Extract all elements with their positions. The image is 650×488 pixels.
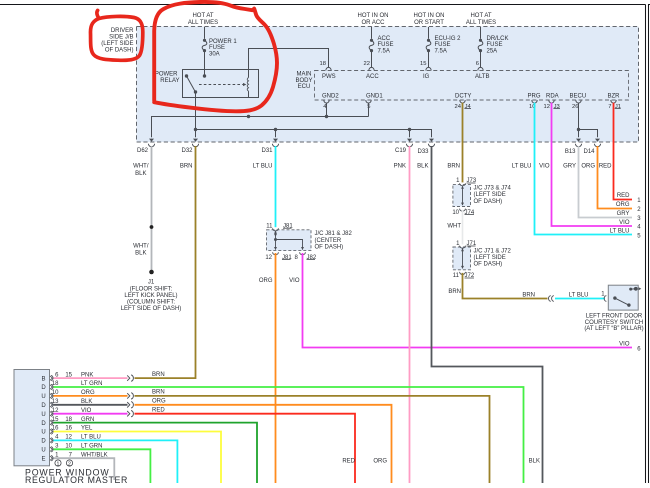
svg-text:PNK: PNK — [394, 164, 406, 170]
wire BLK D33 down and across — [432, 146, 543, 483]
svg-text:6: 6 — [476, 61, 479, 67]
wire: relay output down to bus — [195, 92, 197, 137]
svg-text:ACC: ACC — [366, 74, 379, 80]
svg-text:GND2: GND2 — [322, 94, 339, 100]
connector D32 — [193, 139, 198, 142]
svg-text:BODY: BODY — [295, 78, 312, 84]
svg-text:VIO: VIO — [619, 220, 630, 226]
svg-text:BLK: BLK — [529, 459, 540, 465]
svg-text:C19: C19 — [395, 148, 407, 154]
inline connector )) — [127, 402, 133, 408]
svg-text:OF DASH): OF DASH) — [315, 244, 344, 250]
svg-text:(CENTER: (CENTER — [315, 238, 342, 244]
wire BLK master row4 to inline connector — [54, 404, 128, 406]
svg-text:15: 15 — [420, 61, 426, 67]
fuse ECU-IG 2 7.5A — [427, 39, 430, 42]
wire BRN J72 to door connector — [463, 273, 548, 299]
svg-text:(LEFT SIDE: (LEFT SIDE — [474, 255, 506, 261]
svg-text:E: E — [41, 456, 45, 462]
fuse ACC 7.5A — [370, 39, 373, 42]
wire: feed to ECU-IG 2 fuse — [428, 27, 430, 39]
wire WHT/BLK master row10 — [54, 458, 115, 480]
wire LT BLU master row8 — [54, 440, 178, 483]
svg-text:U: U — [41, 448, 45, 454]
junction connector J73/J74 box — [453, 185, 471, 207]
wire LT BLU to courtesy switch pin 1 — [555, 298, 605, 300]
svg-text:OF DASH): OF DASH) — [105, 47, 134, 53]
svg-text:LT BLU: LT BLU — [610, 229, 630, 235]
svg-text:DRIVER: DRIVER — [111, 28, 134, 34]
junction block (driver side J/B) dashed outline with blue fill — [137, 27, 639, 143]
inline connector (( — [549, 296, 554, 302]
svg-text:IG: IG — [423, 74, 430, 80]
J81 internal links — [273, 228, 279, 231]
inline connector )) — [127, 393, 133, 399]
svg-text:VIO: VIO — [619, 341, 630, 347]
wire RED BZR to edge pin 1 — [614, 103, 633, 200]
svg-text:ACC: ACC — [378, 36, 391, 42]
svg-text:LT BLU: LT BLU — [569, 292, 589, 298]
junction connector J81/J82 box — [267, 230, 312, 251]
annotation: small red circle around DRIVER SIDE J/B — [90, 10, 142, 60]
svg-text:D: D — [41, 439, 46, 445]
svg-text:(LEFT SIDE: (LEFT SIDE — [101, 41, 133, 47]
wire LT GRN master row9 — [54, 449, 151, 483]
fuse DR/LCK 25A — [479, 39, 482, 42]
svg-text:BRN: BRN — [180, 164, 193, 170]
ECU pin 4 GND2 — [324, 100, 329, 103]
svg-text:D62: D62 — [137, 148, 149, 154]
wire BRN D32 to master switch — [135, 146, 196, 378]
svg-text:7.5A: 7.5A — [435, 49, 447, 55]
switch S1 LEFT FRONT DOOR COURTESY SWITCH box — [608, 285, 638, 310]
svg-text:OR ACC: OR ACC — [361, 20, 385, 26]
svg-text:HOT IN ON: HOT IN ON — [414, 13, 445, 19]
svg-text:ORG: ORG — [616, 202, 630, 208]
relay actuation dashed link — [199, 84, 243, 86]
svg-text:11: 11 — [453, 273, 460, 279]
svg-text:PWS: PWS — [322, 74, 336, 80]
svg-text:BRN: BRN — [152, 390, 165, 396]
svg-text:22: 22 — [364, 61, 370, 67]
svg-text:WHT/: WHT/ — [133, 243, 149, 249]
svg-text:FUSE: FUSE — [435, 42, 451, 48]
ECU U1 MAIN BODY ECU dashed box — [315, 71, 629, 101]
circled note 2 — [66, 460, 72, 466]
svg-text:(FLOOR SHIFT:: (FLOOR SHIFT: — [130, 286, 173, 292]
wire GRY B13 to edge pin 3 — [579, 146, 633, 218]
svg-text:ORG: ORG — [581, 164, 595, 170]
svg-text:FUSE: FUSE — [378, 42, 394, 48]
svg-text:1: 1 — [57, 461, 60, 467]
svg-text:WHT/: WHT/ — [133, 164, 149, 170]
ECU pin 7 J1 BZR — [611, 100, 616, 103]
svg-text:12: 12 — [265, 255, 272, 261]
svg-text:RED: RED — [617, 193, 630, 199]
svg-text:D31: D31 — [261, 148, 273, 154]
svg-text:LEFT SIDE OF DASH): LEFT SIDE OF DASH) — [121, 306, 182, 312]
svg-text:ALTB: ALTB — [475, 74, 490, 80]
wire BRN after row3 connector — [135, 396, 490, 483]
wire VIO RDA to edge pin 4 — [552, 103, 633, 226]
svg-text:7.5A: 7.5A — [378, 49, 390, 55]
svg-text:BRN: BRN — [448, 289, 461, 295]
svg-text:ALL TIMES: ALL TIMES — [188, 20, 218, 26]
wire: feed to DR/LCK fuse — [480, 27, 482, 39]
svg-text:LEFT KICK PANEL): LEFT KICK PANEL) — [124, 293, 177, 299]
courtesy switch contacts — [613, 296, 616, 299]
svg-text:BLK: BLK — [135, 251, 146, 257]
svg-text:RELAY: RELAY — [160, 78, 179, 84]
connector B13 — [576, 139, 581, 142]
svg-text:B13: B13 — [565, 149, 576, 155]
wire VIO J82 pin8 to right edge pin 6 — [303, 253, 633, 348]
svg-text:18: 18 — [320, 61, 326, 67]
svg-text:BRN: BRN — [152, 372, 165, 378]
svg-text:ECU-IG 2: ECU-IG 2 — [435, 36, 462, 42]
svg-text:30A: 30A — [209, 52, 220, 58]
wire RED after row5 connector — [135, 414, 356, 483]
svg-text:DR/LCK: DR/LCK — [487, 36, 509, 42]
svg-text:LT BLU: LT BLU — [253, 164, 273, 170]
wire: DR/LCK fuse to ECU pin 6 — [480, 51, 482, 68]
connector D33 — [429, 139, 434, 142]
wire BECU pin to B13 and D14 — [579, 103, 598, 138]
svg-text:2: 2 — [68, 461, 71, 467]
svg-text:D33: D33 — [417, 149, 429, 155]
svg-text:LEFT FRONT DOOR: LEFT FRONT DOOR — [586, 313, 643, 319]
svg-text:J/C J71 & J72: J/C J71 & J72 — [474, 248, 512, 254]
svg-text:MAIN: MAIN — [297, 71, 312, 77]
svg-text:BLK: BLK — [135, 171, 146, 177]
svg-text:BRN: BRN — [522, 292, 535, 298]
connector C19 — [407, 139, 412, 142]
ECU pin 12 J3 RDA — [549, 100, 554, 103]
wire ground bus: GND pins to D62 — [152, 103, 369, 138]
relay contact — [185, 74, 188, 77]
svg-text:U: U — [41, 394, 45, 400]
svg-text:RED: RED — [152, 408, 165, 414]
svg-text:BZR: BZR — [608, 94, 621, 100]
svg-text:FUSE: FUSE — [487, 42, 503, 48]
ECU pin 22 ACC — [369, 67, 374, 70]
relay K1 POWER RELAY box — [183, 70, 259, 98]
svg-text:COURTESY SWITCH: COURTESY SWITCH — [585, 320, 643, 326]
svg-text:BECU: BECU — [570, 94, 587, 100]
relay coil — [248, 70, 250, 78]
svg-text:LT BLU: LT BLU — [512, 164, 532, 170]
svg-text:7: 7 — [608, 104, 611, 110]
svg-text:POWER 1: POWER 1 — [209, 39, 237, 45]
switch S2 POWER WINDOW REGULATOR MASTER box — [14, 370, 50, 466]
wire: relay coil to ECU PWS pin 18 — [249, 49, 329, 70]
page right frame (this page) — [645, 5, 647, 484]
svg-text:WHT: WHT — [447, 224, 461, 230]
wire: ECU-IG2 fuse to ECU pin 15 — [428, 51, 430, 68]
connector D31 — [273, 139, 278, 142]
svg-text:J/C J81 & J82: J/C J81 & J82 — [315, 231, 353, 237]
svg-text:BLK: BLK — [417, 164, 428, 170]
svg-text:DCTY: DCTY — [455, 94, 471, 100]
svg-text:GRY: GRY — [617, 211, 630, 217]
svg-text:REGULATOR MASTER: REGULATOR MASTER — [25, 475, 128, 483]
svg-text:RED: RED — [342, 459, 355, 465]
wire: ACC fuse to ECU pin 22 — [371, 51, 373, 68]
svg-text:RDA: RDA — [546, 94, 559, 100]
wire ORG J81 pin12 down — [275, 253, 277, 483]
fuse POWER 1 30A — [203, 39, 206, 42]
svg-text:HOT AT: HOT AT — [470, 13, 491, 19]
svg-text:(AT LEFT “B” PILLAR): (AT LEFT “B” PILLAR) — [584, 326, 643, 332]
wire GRN master row6 — [54, 423, 258, 483]
wire PNK C19 down — [409, 146, 411, 483]
next page frame corner — [649, 5, 650, 484]
circled note 1 — [55, 460, 61, 466]
wire WHT/BLK D62 to ground J1 — [151, 146, 153, 272]
wire BRN DCTY to J/C J73 — [462, 103, 464, 183]
wire ORG after row4 connector — [135, 405, 392, 483]
svg-text:U: U — [41, 430, 45, 436]
courtesy switch pin connector — [604, 296, 606, 302]
ECU pin 24 J4 DCTY — [460, 100, 465, 103]
wire VIO master row5 to inline connector — [54, 413, 128, 415]
wire: battery feed to POWER 1 fuse — [204, 27, 206, 39]
ECU pin 15 IG — [426, 67, 431, 70]
ECU pin 6 ALTB — [478, 67, 483, 70]
svg-text:D32: D32 — [181, 148, 193, 154]
svg-text:GRY: GRY — [563, 164, 576, 170]
svg-text:J/C J73 & J74: J/C J73 & J74 — [474, 186, 512, 192]
svg-text:D14: D14 — [583, 149, 595, 155]
svg-text:BRN: BRN — [447, 164, 460, 170]
svg-text:ORG: ORG — [152, 399, 166, 405]
svg-text:26: 26 — [572, 104, 578, 110]
connector D14 — [595, 139, 600, 142]
svg-text:J1: J1 — [148, 280, 155, 286]
annotation: big red circle around power relay and fuse — [154, 2, 277, 111]
svg-text:U: U — [41, 412, 45, 418]
ECU pin 5 GND1 — [366, 100, 371, 103]
svg-text:HOT IN ON: HOT IN ON — [358, 13, 389, 19]
svg-text:ORG: ORG — [259, 278, 273, 284]
wire relay output bus to D32 D31 C19 D33 — [196, 130, 432, 138]
svg-text:10: 10 — [452, 210, 459, 216]
wire PNK master row1 to inline connector — [54, 377, 128, 379]
junction connector J71/J72 box — [453, 247, 471, 270]
svg-text:GND1: GND1 — [366, 94, 383, 100]
svg-text:B: B — [41, 376, 45, 382]
wire: POWER 1 fuse to relay contact — [204, 51, 206, 76]
inline connector )) — [127, 411, 133, 417]
wire LT BLU D31 to J/C J81 — [275, 146, 277, 227]
inline connector )) — [127, 375, 133, 381]
svg-text:ECU: ECU — [298, 84, 311, 90]
ECU pin 10 PRG — [532, 100, 537, 103]
wire LT BLU PRG to edge pin 5 — [535, 103, 633, 235]
svg-text:24: 24 — [455, 104, 462, 110]
svg-text:OR START: OR START — [414, 20, 444, 26]
svg-text:(COLUMN SHIFT:: (COLUMN SHIFT: — [127, 300, 175, 306]
svg-text:25A: 25A — [487, 49, 498, 55]
page top frame line — [0, 4, 646, 6]
svg-text:D: D — [41, 403, 46, 409]
svg-text:HOT AT: HOT AT — [192, 13, 213, 19]
svg-text:ALL TIMES: ALL TIMES — [466, 20, 496, 26]
ECU pin 18 PWS — [326, 67, 331, 70]
svg-text:(LEFT SIDE: (LEFT SIDE — [474, 192, 506, 198]
connector D62 — [149, 139, 154, 142]
wire: feed to ACC fuse — [371, 27, 373, 39]
ECU pin 26 BECU — [576, 100, 581, 103]
wire WHT J74 to J71 — [462, 210, 464, 245]
svg-text:OF DASH): OF DASH) — [474, 199, 503, 205]
wire LT GRN master row2 down-right — [54, 387, 524, 483]
svg-text:D: D — [41, 385, 46, 391]
svg-text:FUSE: FUSE — [209, 45, 225, 51]
wire ORG D14 to edge pin 2 — [598, 146, 633, 209]
svg-text:POWER: POWER — [155, 72, 178, 78]
svg-text:11: 11 — [266, 223, 273, 229]
svg-text:VIO: VIO — [289, 278, 300, 284]
svg-text:12: 12 — [544, 104, 550, 110]
svg-text:PRG: PRG — [528, 94, 541, 100]
svg-text:RED: RED — [599, 164, 612, 170]
wire ORG master row3 to inline connector — [54, 395, 128, 397]
svg-text:ORG: ORG — [373, 459, 387, 465]
svg-text:OF DASH): OF DASH) — [474, 262, 503, 268]
svg-text:VIO: VIO — [539, 164, 550, 170]
svg-text:SIDE J/B: SIDE J/B — [109, 35, 133, 41]
wire YEL master row7 — [54, 432, 222, 484]
svg-text:D: D — [41, 421, 46, 427]
